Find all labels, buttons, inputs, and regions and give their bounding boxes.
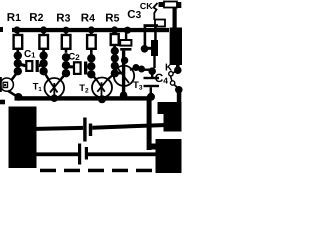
wire: bottom ground line (15, 96, 152, 100)
wire: jack to column1 lead (12, 72, 18, 80)
svg-text:R3: R3 (56, 13, 70, 25)
wire: lower battery wire right (88, 152, 156, 156)
node pad bus-R5 (111, 26, 118, 33)
wire: upper auxiliary line (144, 24, 159, 27)
node pad T3 out B (138, 66, 145, 73)
wire: R3 top lead (65, 31, 68, 36)
node pads column5 (111, 47, 119, 55)
wire: T2 collector leg (107, 73, 114, 79)
resistor R1 (14, 35, 23, 49)
component body: series element (black) (151, 40, 158, 56)
battery holder block left (9, 107, 37, 169)
transistor T3 (114, 66, 134, 86)
wire: T1 collector leg (60, 73, 66, 80)
wire: R4 bottom lead (90, 49, 93, 55)
wire: R4 top lead (90, 31, 93, 36)
node pad ground-right junction (147, 93, 155, 101)
capacitor C4 (144, 77, 160, 79)
node pad T3 out A (133, 64, 140, 71)
wire: K to lower pad (174, 85, 178, 89)
wire: pad to contact (173, 72, 176, 74)
battery cell G1: long plate (83, 118, 86, 142)
wire: C2 right lead (87, 65, 91, 68)
wire: R5 bottom lead (113, 45, 116, 49)
component body below CK (holder) (155, 20, 165, 27)
power block top-right (170, 28, 182, 66)
wire: C4 top lead (151, 72, 153, 77)
transistor T2 (92, 78, 112, 98)
speaker terminal block lower (156, 139, 182, 173)
node pad T1 emitter (51, 94, 59, 102)
wire: upper battery wire left (37, 126, 84, 131)
resistor R3 (62, 35, 71, 49)
node pad bus-C3 (124, 27, 131, 34)
capacitor C3 (120, 40, 131, 46)
wire: test pad to series element (146, 47, 151, 50)
pushbutton K: lever (171, 76, 172, 81)
wire: R1 bottom lead (17, 49, 20, 53)
switch CK: body rectangle (164, 2, 177, 8)
node pad below power block (174, 66, 182, 74)
svg-text:R4: R4 (81, 13, 95, 25)
wire: R3 bottom lead (65, 49, 68, 53)
svg-text:R2: R2 (29, 12, 43, 24)
wire: upper battery wire right (92, 123, 166, 130)
wire: T3 leg to pad (130, 68, 136, 71)
wire: left edge tick top (0, 27, 3, 32)
node pads column2 (39, 51, 47, 59)
resistor R4 (87, 35, 96, 49)
battery cell G1: short plate (89, 124, 92, 137)
wire: jack to ground lead (8, 91, 16, 96)
input jack X1: inner square terminal (3, 82, 7, 87)
wire: C1 left lead (18, 62, 26, 67)
node pad C4 top (148, 67, 156, 75)
wire: C2 left lead (66, 65, 74, 68)
node pad bus-R1 (13, 26, 20, 33)
wire: left edge tick bottom (0, 100, 5, 105)
capacitor C1 (26, 61, 32, 71)
node pad T2 emitter (98, 95, 106, 103)
node pad ground-left (15, 93, 23, 101)
wire: right drop from switch (173, 7, 177, 28)
node pads column3 (62, 53, 70, 61)
speaker terminal block upper (158, 102, 182, 114)
switch CK: zigzag lever (154, 3, 158, 20)
wire: C4 bottom lead (150, 87, 152, 96)
capacitor C2 (74, 62, 81, 74)
svg-text:R5: R5 (105, 13, 119, 25)
wire: element to pad (153, 56, 155, 68)
node pad bus-R2 (40, 26, 47, 33)
svg-text:CK: CK (140, 1, 153, 11)
wire: block to pad stub (176, 63, 180, 68)
switch CK: left contact square (159, 2, 165, 7)
wire: C3 top lead (125, 32, 127, 40)
wire: top supply bus (12, 28, 169, 32)
node pads column4 (87, 54, 95, 62)
node pad T3 top (121, 57, 128, 64)
pushbutton K: top contact (169, 72, 173, 76)
node pad K bottom (175, 86, 183, 94)
input jack X1: plug bracket (0, 77, 2, 92)
resistor R5 (111, 34, 119, 45)
svg-text:R1: R1 (7, 12, 21, 24)
node pad T3 emitter (120, 91, 128, 99)
wire: T1 base leg (44, 71, 49, 80)
node pad bus-R4 (88, 26, 95, 33)
wire: lever line through bus (154, 27, 157, 41)
wire: R2 bottom lead (42, 49, 45, 53)
wire: R5 top lead (113, 31, 116, 34)
wire: T2 base leg (91, 74, 96, 79)
node pad test point (141, 45, 149, 53)
wire: K pad into block (177, 93, 182, 103)
wire: branch into lower right block (152, 144, 159, 150)
wire: pads link (144, 69, 150, 71)
switch CK: right contact (177, 2, 182, 8)
input jack X1: body circle (0, 78, 13, 91)
wire: R1 top lead (17, 31, 20, 36)
transistor T1 (45, 78, 65, 98)
wire: vertical drop from ground junction (147, 98, 152, 150)
node pads column1 (14, 51, 22, 59)
node pad bus-R3 (63, 27, 70, 34)
dashed case outline (40, 169, 152, 173)
wire: lower battery wire left (37, 152, 79, 156)
wire: branch to test pad (144, 25, 147, 46)
resistor R2 (39, 35, 48, 49)
battery cell G2: short plate (85, 147, 88, 160)
wire: T3 left leg from column5 (115, 72, 123, 75)
wire: C3 to T3 vertical (122, 51, 125, 98)
battery cell G2: long plate (78, 144, 81, 165)
svg-text:C1: C1 (24, 49, 35, 60)
wire: C1 right lead (39, 62, 44, 67)
svg-text:C2: C2 (68, 51, 80, 62)
pushbutton K: bottom contact (170, 81, 174, 85)
wire: R2 top lead (42, 31, 45, 36)
